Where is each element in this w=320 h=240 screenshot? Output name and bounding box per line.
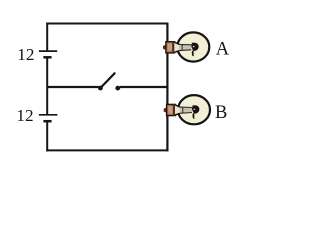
svg-text:12: 12	[17, 45, 34, 64]
svg-text:12: 12	[16, 106, 33, 125]
svg-text:B: B	[215, 103, 227, 123]
svg-text:A: A	[216, 40, 230, 60]
